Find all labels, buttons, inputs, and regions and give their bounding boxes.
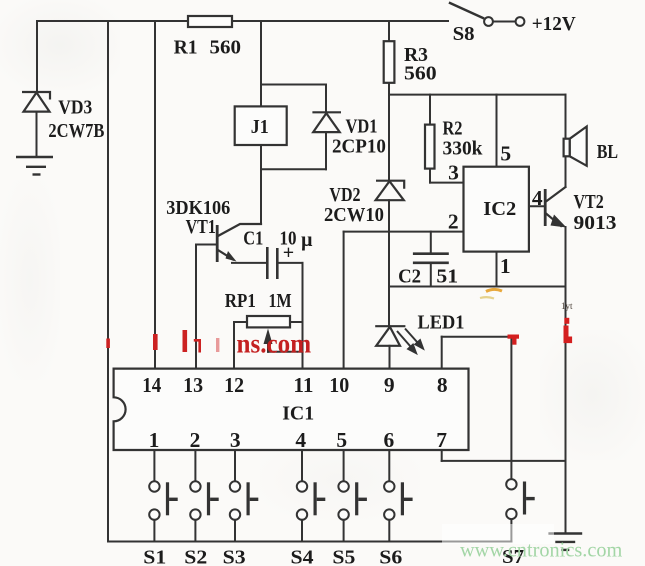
svg-text:+: +	[283, 242, 294, 264]
svg-text:12: 12	[224, 374, 244, 397]
svg-text:S8: S8	[453, 23, 475, 45]
svg-text:RP1: RP1	[225, 290, 256, 313]
svg-text:2: 2	[190, 428, 201, 452]
svg-text:www.cntronics.com: www.cntronics.com	[460, 537, 622, 562]
svg-text:1: 1	[500, 254, 511, 278]
svg-text:5: 5	[500, 141, 511, 165]
svg-text:1M: 1M	[269, 289, 292, 311]
svg-text:560: 560	[210, 37, 241, 58]
svg-text:10: 10	[329, 374, 349, 397]
svg-text:VT1: VT1	[186, 215, 216, 237]
svg-text:VD3: VD3	[58, 96, 92, 118]
svg-text:1: 1	[149, 428, 160, 452]
svg-text:S4: S4	[291, 545, 315, 566]
svg-text:IC1: IC1	[282, 402, 314, 424]
svg-text:2CW10: 2CW10	[324, 204, 384, 226]
svg-text:1yt: 1yt	[561, 301, 573, 311]
svg-text:9: 9	[384, 373, 395, 397]
svg-text:BL: BL	[597, 140, 618, 162]
svg-text:4: 4	[295, 428, 306, 452]
svg-text:+12V: +12V	[532, 14, 576, 35]
svg-text:8: 8	[437, 373, 448, 397]
svg-text:VT2: VT2	[574, 190, 604, 212]
svg-text:9013: 9013	[574, 213, 617, 234]
svg-text:S3: S3	[223, 545, 246, 566]
svg-text:µ: µ	[301, 229, 313, 251]
svg-text:51: 51	[436, 264, 458, 287]
svg-text:5: 5	[336, 428, 347, 452]
svg-text:2CP10: 2CP10	[332, 136, 386, 157]
svg-text:R1: R1	[174, 36, 198, 58]
svg-text:S1: S1	[143, 545, 166, 566]
svg-text:2: 2	[448, 210, 459, 234]
svg-text:3: 3	[230, 428, 241, 452]
svg-text:560: 560	[404, 61, 437, 84]
svg-text:R2: R2	[443, 117, 463, 139]
svg-text:13: 13	[183, 374, 203, 397]
svg-text:11: 11	[293, 373, 313, 397]
svg-text:VD2: VD2	[329, 183, 360, 205]
svg-text:LED1: LED1	[418, 312, 465, 334]
svg-text:VD1: VD1	[346, 115, 378, 137]
svg-text:C1: C1	[243, 227, 263, 249]
svg-text:2CW7B: 2CW7B	[48, 120, 104, 142]
svg-text:6: 6	[384, 428, 395, 452]
svg-text:S6: S6	[379, 545, 402, 566]
svg-text:S2: S2	[184, 545, 207, 566]
svg-text:330k: 330k	[443, 137, 483, 159]
svg-text:J1: J1	[251, 116, 269, 138]
svg-text:IC2: IC2	[483, 198, 516, 220]
svg-text:7: 7	[436, 428, 447, 452]
svg-text:ns.com: ns.com	[237, 329, 312, 359]
svg-text:4: 4	[532, 186, 543, 210]
svg-text:S5: S5	[332, 545, 355, 566]
svg-text:C2: C2	[398, 266, 421, 288]
svg-text:3: 3	[448, 160, 459, 184]
svg-text:14: 14	[142, 374, 161, 397]
